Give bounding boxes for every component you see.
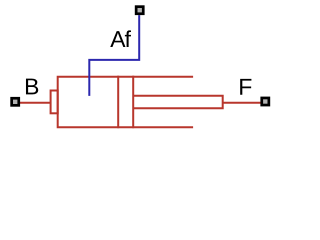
label F bbox=[240, 79, 251, 95]
piston rod rectangle (open left) bbox=[133, 96, 223, 108]
wire B to boss bbox=[20, 102, 51, 104]
label Af letter A bbox=[110, 31, 125, 47]
connector F square bbox=[260, 97, 270, 107]
port boss rectangle on left bbox=[51, 91, 58, 114]
label Af letter f bbox=[125, 30, 131, 47]
piston right wall bbox=[132, 76, 134, 129]
label B bbox=[26, 79, 38, 95]
connector Af square bbox=[135, 5, 145, 15]
cylinder body outline (left wall, top wall, bottom wall) bbox=[58, 77, 193, 128]
piston left wall bbox=[117, 76, 119, 129]
connector B square bbox=[10, 97, 20, 107]
wire Af blue bbox=[89, 15, 139, 96]
wire rod to F bbox=[223, 102, 261, 104]
